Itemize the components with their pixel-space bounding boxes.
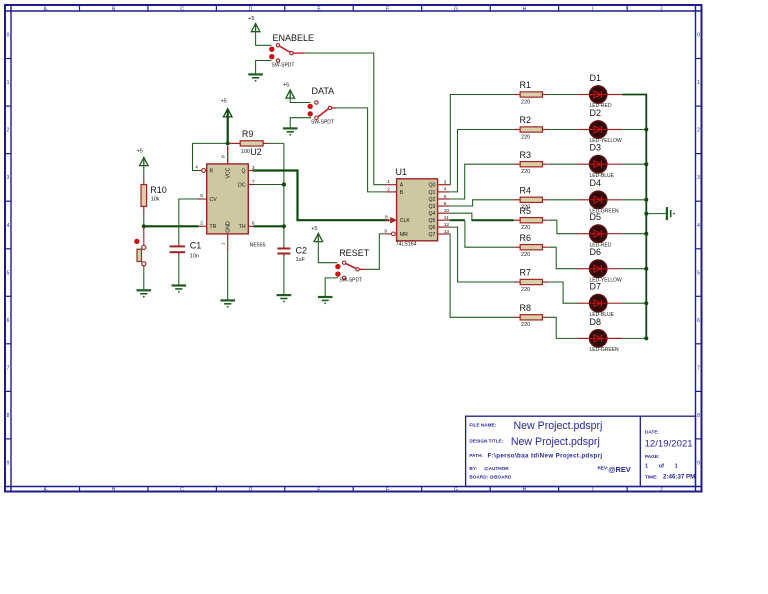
svg-text:R7: R7 bbox=[520, 268, 532, 278]
node TH junction bbox=[282, 224, 286, 228]
wire TR junction to 555 TR pin bbox=[144, 225, 199, 227]
svg-text:LED-GREEN: LED-GREEN bbox=[590, 347, 620, 353]
resistor R7 bbox=[520, 279, 542, 284]
wire D7 cathode to bus bbox=[622, 302, 646, 304]
shift register U1 74LS164 body bbox=[397, 179, 438, 241]
wire ENABELE +5 feed bbox=[256, 32, 272, 46]
svg-text:TR: TR bbox=[210, 224, 217, 230]
svg-text:220: 220 bbox=[521, 252, 530, 258]
resistor R10 leads bbox=[143, 179, 145, 185]
svg-text:Q0: Q0 bbox=[428, 183, 435, 189]
wire ENABELE pole to U1 pin A bbox=[305, 53, 386, 185]
ground ENABELE bbox=[248, 73, 263, 75]
svg-text:4: 4 bbox=[697, 223, 700, 229]
svg-text:Q2: Q2 bbox=[428, 197, 435, 203]
LED D1 bbox=[590, 86, 607, 103]
LED D5 leads bbox=[578, 233, 591, 235]
U2 pin 6 TH bbox=[248, 225, 253, 227]
svg-text:0: 0 bbox=[697, 33, 700, 39]
svg-text:BY:: BY: bbox=[469, 466, 477, 471]
svg-text:7: 7 bbox=[252, 179, 255, 185]
node bus row 7 bbox=[644, 301, 648, 305]
U1 pin 11 Q5 bbox=[438, 219, 450, 221]
wire D5 cathode to bus bbox=[622, 233, 646, 235]
wire R1 to D1 bbox=[549, 94, 578, 96]
U2 pin 7 DC bbox=[248, 184, 253, 186]
wire D4 cathode to bus bbox=[622, 199, 646, 201]
svg-text:New Project.pdsprj: New Project.pdsprj bbox=[511, 436, 600, 448]
wire R10 +5 stem bbox=[143, 165, 145, 179]
svg-text:5: 5 bbox=[7, 270, 10, 276]
svg-text:C: C bbox=[180, 487, 184, 493]
resistor R10 bbox=[141, 185, 147, 207]
svg-text:+5: +5 bbox=[137, 148, 143, 154]
wire bus to right ground bbox=[646, 213, 666, 215]
svg-text:G: G bbox=[454, 6, 458, 12]
svg-text:F: F bbox=[386, 6, 389, 12]
svg-text:13: 13 bbox=[444, 229, 450, 235]
svg-text:220: 220 bbox=[521, 169, 530, 175]
wire R2 to D2 bbox=[549, 129, 578, 131]
wire 555 GND pin to ground bbox=[227, 252, 229, 300]
wire R7 to D7 bbox=[549, 282, 578, 303]
resistor R7 leads bbox=[514, 281, 520, 283]
U2 pin 5 CV bbox=[199, 198, 207, 200]
svg-text:Q1: Q1 bbox=[428, 190, 435, 196]
svg-text:SW-SPDT: SW-SPDT bbox=[339, 277, 362, 283]
svg-text:MR: MR bbox=[400, 232, 408, 238]
svg-text:BOARD:: BOARD: bbox=[469, 474, 488, 479]
svg-text:3: 3 bbox=[252, 165, 255, 171]
svg-text:5: 5 bbox=[697, 270, 700, 276]
svg-text:C1: C1 bbox=[190, 241, 202, 251]
wire Q2 to R3 row bbox=[450, 164, 514, 199]
svg-text:TIME:: TIME: bbox=[645, 474, 658, 479]
svg-text:DATA: DATA bbox=[312, 86, 335, 96]
svg-text:12/19/2021: 12/19/2021 bbox=[645, 439, 693, 450]
LED D6 bbox=[590, 260, 607, 277]
svg-text:DESIGN TITLE:: DESIGN TITLE: bbox=[469, 439, 503, 444]
svg-text:CV: CV bbox=[210, 197, 218, 203]
svg-text:1 of 1: 1 of 1 bbox=[645, 464, 678, 470]
svg-text:R9: R9 bbox=[242, 129, 254, 139]
wire RESET lower throw to ground bbox=[325, 278, 338, 296]
svg-text:R1: R1 bbox=[520, 80, 532, 90]
svg-text:4: 4 bbox=[7, 223, 10, 229]
resistor R5 leads bbox=[514, 219, 520, 221]
svg-text:4: 4 bbox=[444, 187, 447, 193]
switch DATA lever bbox=[318, 109, 329, 117]
svg-text:0: 0 bbox=[7, 33, 10, 39]
wire D2 cathode to bus bbox=[622, 129, 646, 131]
switch RESET big dots bbox=[335, 264, 340, 269]
svg-text:D: D bbox=[249, 487, 253, 493]
svg-text:G: G bbox=[454, 487, 458, 493]
LED D7 bbox=[590, 295, 607, 312]
svg-text:C2: C2 bbox=[296, 245, 308, 255]
svg-text:VCC: VCC bbox=[226, 167, 232, 178]
resistor R8 leads bbox=[514, 316, 520, 318]
svg-text:9: 9 bbox=[384, 228, 387, 234]
U1 pin 13 Q7 bbox=[438, 233, 450, 235]
capacitor C1 bbox=[170, 245, 186, 247]
wire Q1 to R2 row bbox=[450, 130, 514, 192]
resistor R9 leads bbox=[229, 142, 240, 144]
wire LED cathode bus bbox=[622, 95, 646, 339]
resistor R5 bbox=[520, 218, 542, 223]
svg-text:D3: D3 bbox=[590, 143, 602, 153]
svg-text:R4: R4 bbox=[520, 185, 532, 195]
svg-text:8: 8 bbox=[7, 413, 10, 419]
svg-text:R2: R2 bbox=[520, 115, 532, 125]
LED D6 leads bbox=[578, 268, 591, 270]
ground RESET bbox=[318, 296, 333, 298]
svg-text:Q7: Q7 bbox=[428, 232, 435, 238]
svg-text:6: 6 bbox=[444, 201, 447, 207]
svg-text:7: 7 bbox=[697, 365, 700, 371]
svg-text:REV:: REV: bbox=[598, 466, 609, 471]
svg-text:D2: D2 bbox=[590, 108, 602, 118]
title block outline bbox=[466, 416, 696, 486]
wire Q3 to R4 row bbox=[450, 200, 514, 206]
svg-text:220: 220 bbox=[521, 287, 530, 293]
svg-text:D4: D4 bbox=[590, 178, 602, 188]
svg-text:9: 9 bbox=[7, 461, 10, 467]
svg-text:I: I bbox=[592, 487, 593, 493]
svg-text:DC: DC bbox=[238, 182, 246, 188]
U1 pin 2 B bbox=[385, 191, 396, 193]
wire R4 to D4 bbox=[549, 199, 578, 201]
svg-text:10k: 10k bbox=[151, 197, 160, 203]
node DC junction bbox=[282, 182, 286, 186]
svg-text:6: 6 bbox=[7, 318, 10, 324]
U1 pin 1 A bbox=[385, 184, 396, 186]
LED D8 leads bbox=[578, 337, 591, 339]
wire Q4 to R5 row bbox=[450, 213, 472, 219]
wire DC TH C2 vertical bbox=[283, 143, 285, 248]
svg-text:1: 1 bbox=[7, 80, 10, 86]
svg-text:1uF: 1uF bbox=[296, 257, 306, 263]
wire Q0 to R1 row bbox=[450, 95, 514, 185]
node bus row 6 bbox=[644, 267, 648, 271]
U2 pin 4 reset bbox=[198, 170, 201, 172]
LED D3 bbox=[590, 156, 607, 173]
svg-text:SW-SPDT: SW-SPDT bbox=[311, 119, 334, 125]
node bus row 3 bbox=[644, 162, 648, 166]
svg-text:6: 6 bbox=[252, 221, 255, 227]
frame column ticks bbox=[79, 5, 81, 11]
wire R9 right to DC/TH vertical bbox=[268, 142, 284, 144]
svg-text:U1: U1 bbox=[396, 167, 408, 177]
LED D8 bbox=[590, 330, 607, 347]
svg-text:2: 2 bbox=[387, 186, 390, 192]
node bus row 8 bbox=[644, 336, 648, 340]
svg-text:2: 2 bbox=[200, 221, 203, 227]
U2 pin 8 VCC bbox=[227, 146, 229, 164]
wire Q7 to R8 row bbox=[450, 234, 514, 317]
LED D2 leads bbox=[578, 129, 591, 131]
node bus row 2 bbox=[644, 128, 648, 132]
wire VCC junction to 555 reset pin bbox=[193, 143, 228, 170]
sheet border outer frame bbox=[5, 5, 702, 492]
wire pushbutton bottom to ground bbox=[143, 266, 145, 290]
U1 pin 12 Q6 bbox=[438, 226, 450, 228]
svg-text:SW-SPDT: SW-SPDT bbox=[272, 63, 295, 69]
resistor R9 bbox=[240, 141, 263, 146]
wire D8 cathode to bus bbox=[622, 337, 646, 339]
wire R10 bottom to TR junction bbox=[143, 213, 145, 226]
svg-text:R: R bbox=[210, 168, 214, 174]
svg-text:U2: U2 bbox=[250, 147, 262, 157]
svg-text:Q: Q bbox=[242, 168, 246, 174]
svg-text:6: 6 bbox=[697, 318, 700, 324]
resistor R3 leads bbox=[514, 163, 520, 165]
U2 pin 2 TR bbox=[199, 225, 207, 227]
node TR junction bbox=[142, 224, 146, 228]
switch DATA pole lead bbox=[332, 107, 337, 109]
wire pushbutton top bbox=[143, 226, 145, 245]
svg-text:@REV: @REV bbox=[608, 465, 630, 474]
svg-text:New Project.pdsprj: New Project.pdsprj bbox=[514, 420, 603, 432]
ground DATA bbox=[283, 127, 298, 129]
wire C1 bottom to ground bbox=[178, 255, 180, 285]
svg-text:5: 5 bbox=[200, 193, 203, 199]
capacitor C2 bbox=[277, 248, 290, 250]
switch ENABELE contacts bbox=[276, 44, 279, 47]
svg-text:220: 220 bbox=[521, 134, 530, 140]
resistor R1 bbox=[520, 92, 542, 97]
svg-text:220: 220 bbox=[521, 225, 530, 231]
U2 pin 3 Q bbox=[248, 170, 253, 172]
svg-text:8: 8 bbox=[220, 155, 226, 158]
svg-text:I: I bbox=[592, 6, 593, 12]
wire Q6 to R7 row bbox=[450, 227, 514, 282]
svg-text:3: 3 bbox=[444, 180, 447, 186]
svg-text:10n: 10n bbox=[190, 253, 199, 259]
svg-text:F: F bbox=[386, 487, 389, 493]
switch RESET pole lead bbox=[359, 268, 365, 270]
switch ENABELE lever bbox=[279, 46, 290, 52]
frame row ticks bbox=[5, 58, 11, 60]
svg-text:TH: TH bbox=[239, 224, 246, 230]
ground C1 bbox=[172, 284, 187, 286]
node VCC junction bbox=[226, 141, 230, 145]
svg-text:3: 3 bbox=[7, 175, 10, 181]
svg-text:3: 3 bbox=[697, 175, 700, 181]
svg-text:ENABELE: ENABELE bbox=[273, 33, 315, 43]
svg-text:Q5: Q5 bbox=[428, 218, 435, 224]
wire R3 to D3 bbox=[549, 163, 578, 165]
svg-text:PATH:: PATH: bbox=[469, 453, 483, 458]
wire R8 to D8 bbox=[549, 317, 578, 338]
U1 pin 10 Q4 bbox=[438, 212, 450, 214]
svg-text:D: D bbox=[249, 6, 253, 12]
node bus ground junction bbox=[644, 212, 648, 216]
U1 pin 9 MR bbox=[385, 233, 391, 235]
svg-text:NE555: NE555 bbox=[250, 242, 266, 248]
resistor R2 leads bbox=[514, 129, 520, 131]
LED D1 leads bbox=[578, 94, 591, 96]
resistor R8 bbox=[520, 315, 542, 320]
node bus row 4 bbox=[644, 198, 648, 202]
svg-text:2:46:37 PM: 2:46:37 PM bbox=[663, 473, 695, 480]
LED D2 bbox=[590, 121, 607, 138]
switch DATA contacts bbox=[315, 101, 318, 104]
pushbutton big dot bbox=[134, 239, 139, 244]
LED D4 leads bbox=[578, 199, 591, 201]
pushbutton contacts bbox=[142, 245, 146, 249]
resistor R2 bbox=[520, 127, 542, 132]
svg-text:+5: +5 bbox=[221, 98, 227, 104]
wire C2 bottom to ground bbox=[283, 255, 285, 295]
wire DATA lower throw to ground bbox=[290, 118, 311, 128]
sheet border inner frame bbox=[5, 10, 702, 12]
svg-text:12: 12 bbox=[444, 222, 450, 228]
svg-text:100: 100 bbox=[241, 149, 250, 155]
svg-text:1: 1 bbox=[387, 179, 390, 185]
svg-text:RESET: RESET bbox=[339, 248, 370, 258]
resistor R1 leads bbox=[514, 94, 520, 96]
svg-text:PAGE:: PAGE: bbox=[645, 454, 660, 459]
svg-text:D6: D6 bbox=[590, 247, 602, 257]
svg-text:D8: D8 bbox=[590, 317, 602, 327]
svg-text:Q4: Q4 bbox=[428, 211, 435, 217]
wire +5 to VCC junction of U2 bbox=[227, 116, 229, 144]
node bus row 5 bbox=[644, 232, 648, 236]
ground right of LED bus bbox=[666, 207, 668, 220]
wire DC pin to vertical bbox=[254, 184, 284, 186]
ground pushbutton bbox=[137, 289, 152, 291]
svg-text:B: B bbox=[400, 190, 404, 196]
svg-text:GND: GND bbox=[226, 221, 232, 233]
svg-text:A: A bbox=[400, 183, 404, 189]
ground C2 bbox=[277, 294, 292, 296]
svg-text:D7: D7 bbox=[590, 282, 602, 292]
LED D4 bbox=[590, 191, 607, 208]
LED D5 bbox=[590, 225, 607, 242]
svg-text:+5: +5 bbox=[311, 226, 317, 232]
wire R5 to D5 bbox=[549, 220, 578, 234]
svg-text:7: 7 bbox=[7, 365, 10, 371]
svg-text:C: C bbox=[180, 6, 184, 12]
svg-text:FILE NAME:: FILE NAME: bbox=[469, 422, 496, 427]
svg-text:11: 11 bbox=[444, 215, 449, 221]
svg-text:F:\perso\baa td\New Project.pd: F:\perso\baa td\New Project.pdsprj bbox=[488, 452, 603, 459]
LED D7 leads bbox=[578, 302, 591, 304]
svg-text:R6: R6 bbox=[520, 233, 532, 243]
svg-text:R3: R3 bbox=[520, 150, 532, 160]
wire DATA +5 feed bbox=[290, 99, 310, 103]
wire Q5 to R6 row bbox=[450, 219, 465, 221]
svg-text:5: 5 bbox=[444, 194, 447, 200]
svg-text:1: 1 bbox=[220, 242, 226, 245]
svg-text:8: 8 bbox=[385, 214, 388, 220]
resistor R4 leads bbox=[514, 199, 520, 201]
svg-text:H: H bbox=[523, 6, 527, 12]
pushbutton body bbox=[137, 249, 142, 261]
U1 pin 8 CLK bbox=[385, 219, 390, 221]
resistor R4 bbox=[520, 197, 542, 202]
wire 555 output Q to CLK of U1 bbox=[253, 171, 390, 221]
svg-text:D1: D1 bbox=[590, 73, 602, 83]
svg-text:@AUTHOR: @AUTHOR bbox=[484, 466, 509, 471]
svg-text:Q6: Q6 bbox=[428, 225, 435, 231]
switch DATA big dots bbox=[308, 104, 313, 109]
switch ENABELE big dots bbox=[269, 47, 274, 52]
svg-text:2: 2 bbox=[7, 128, 10, 134]
wire RESET pole to U1 pin MR bbox=[365, 234, 385, 269]
svg-text:R8: R8 bbox=[520, 303, 532, 313]
resistor R6 leads bbox=[514, 246, 520, 248]
svg-text:D5: D5 bbox=[590, 212, 602, 222]
U1 pin 3 Q0 bbox=[438, 184, 450, 186]
svg-text:1: 1 bbox=[697, 80, 700, 86]
svg-text:+5: +5 bbox=[283, 83, 289, 89]
wire ENABELE lower throw to ground bbox=[256, 61, 272, 74]
svg-text:+5: +5 bbox=[248, 16, 254, 22]
svg-text:Q3: Q3 bbox=[428, 204, 435, 210]
wire TH pin to vertical bbox=[254, 225, 284, 227]
wire D6 cathode to bus bbox=[622, 268, 646, 270]
wire R6 to D6 bbox=[549, 247, 578, 269]
svg-text:10: 10 bbox=[444, 208, 450, 214]
svg-text:2: 2 bbox=[697, 128, 700, 134]
svg-text:9: 9 bbox=[697, 461, 700, 467]
wire RESET +5 feed bbox=[318, 242, 337, 263]
svg-text:H: H bbox=[523, 487, 527, 493]
svg-text:R5: R5 bbox=[520, 206, 532, 216]
svg-text:4: 4 bbox=[195, 165, 198, 171]
switch ENABELE pole lead bbox=[293, 52, 304, 54]
svg-text:220: 220 bbox=[521, 99, 530, 105]
svg-text:8: 8 bbox=[697, 413, 700, 419]
switch RESET contacts bbox=[342, 261, 345, 264]
wire DATA pole to U1 pin B bbox=[336, 108, 385, 192]
wire U2 GND red portion bbox=[227, 234, 229, 252]
svg-text:CLK: CLK bbox=[400, 218, 411, 224]
LED D3 leads bbox=[578, 163, 591, 165]
svg-text:220: 220 bbox=[521, 322, 530, 328]
svg-text:DATE:: DATE: bbox=[645, 429, 659, 434]
wire CV pin to C1 bbox=[179, 199, 199, 244]
resistor R6 bbox=[520, 245, 542, 250]
op-amp U2 NE555 body bbox=[207, 164, 249, 234]
resistor R3 bbox=[520, 162, 542, 167]
U1 pin 4 Q1 bbox=[438, 191, 450, 193]
svg-text:74LS164: 74LS164 bbox=[396, 242, 417, 248]
wire D3 cathode to bus bbox=[622, 163, 646, 165]
svg-text:@BOARD: @BOARD bbox=[490, 474, 512, 479]
svg-text:R10: R10 bbox=[150, 185, 167, 195]
ground U2 GND bbox=[220, 299, 235, 301]
U1 pin 6 Q3 bbox=[438, 205, 450, 207]
U1 pin 5 Q2 bbox=[438, 198, 450, 200]
switch RESET lever bbox=[346, 263, 357, 268]
